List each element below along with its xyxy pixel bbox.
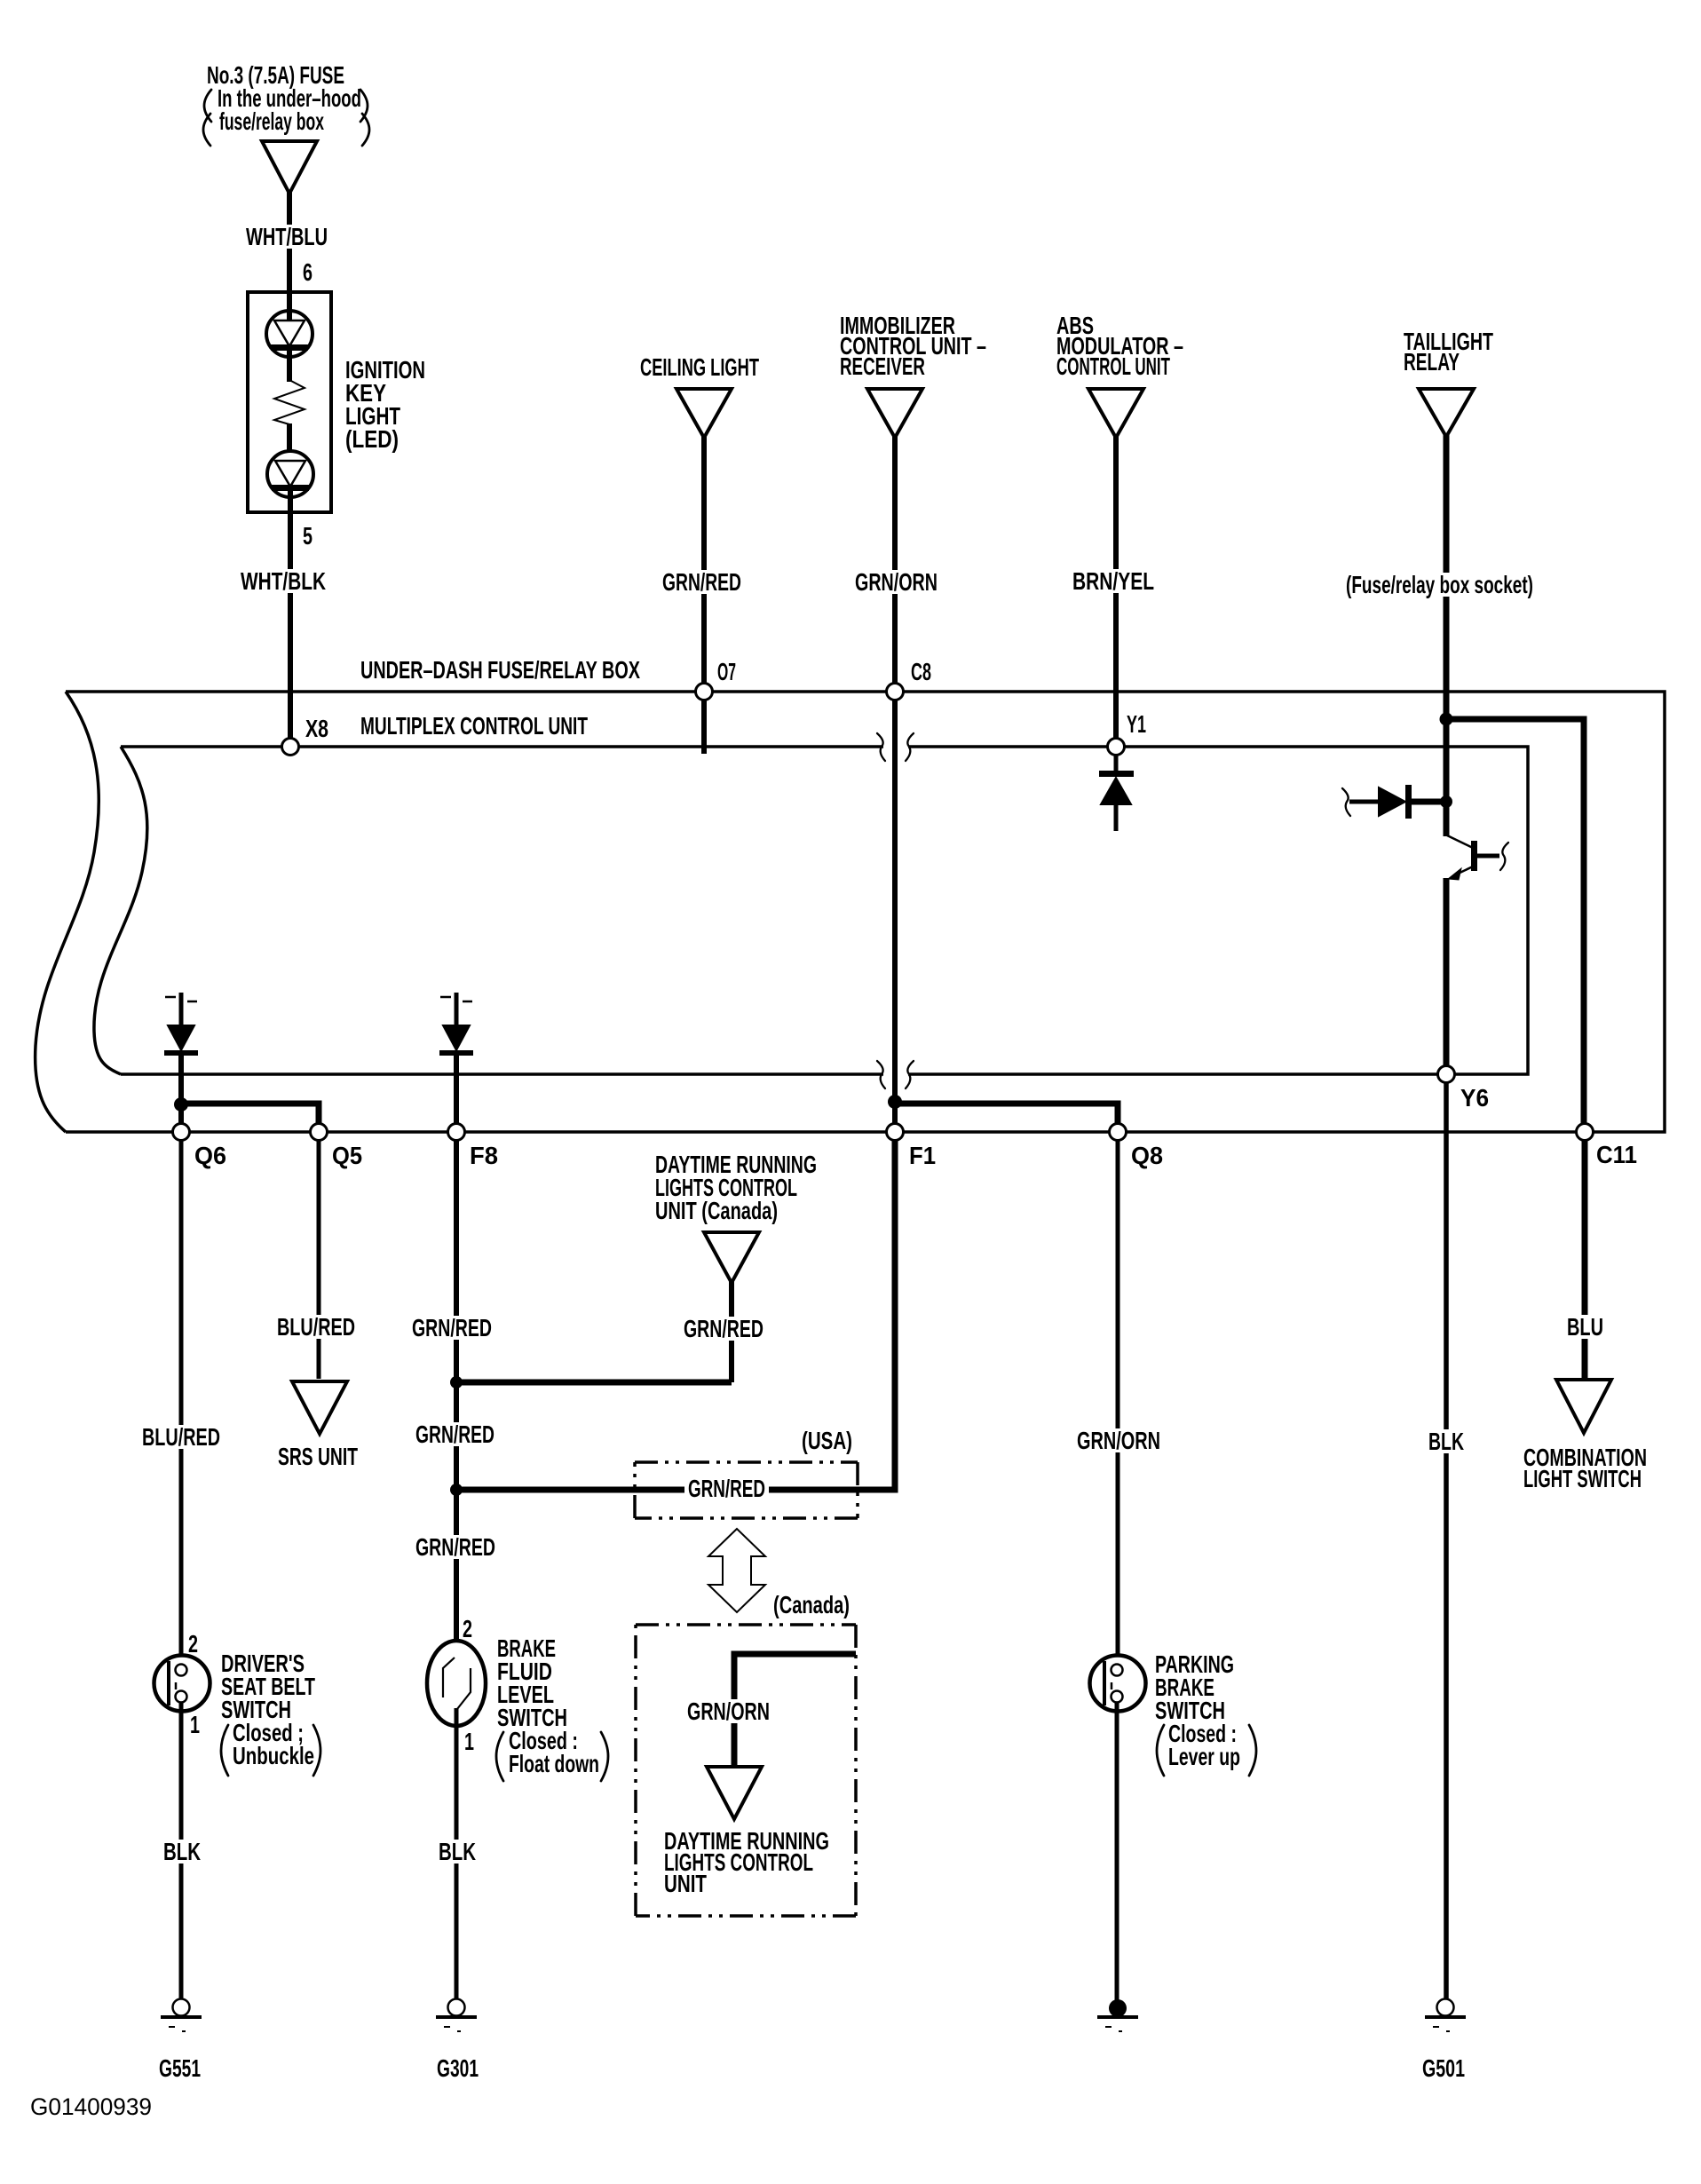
wire GRN/RED from F8 down [454, 1140, 459, 1658]
under-dash fuse/relay box outline [66, 692, 1665, 1132]
LED 1 of ignition key light [266, 311, 313, 357]
wire color label GRN/RED (DRL) [680, 1317, 767, 1341]
svg-text:GRN/RED: GRN/RED [662, 568, 741, 596]
svg-text:Q8: Q8 [1131, 1142, 1163, 1169]
connector triangle: No.3 fuse feed [262, 141, 317, 194]
svg-text:X8: X8 [305, 715, 328, 742]
under-dash fuse/relay box torn left edge [36, 692, 99, 1132]
svg-text:BLU/RED: BLU/RED [142, 1423, 220, 1451]
connector triangle: ABS modulator-control unit [1088, 389, 1143, 438]
wire from taillight relay into fuse/relay box [1444, 435, 1450, 836]
brake fluid level switch [427, 1641, 486, 1726]
connector Y6 on multiplex control unit [1438, 1066, 1455, 1083]
diode feeding taillight relay transistor [1342, 788, 1350, 816]
wire from Y6 down through box to G501 [1444, 1082, 1449, 1999]
svg-text:MULTIPLEX CONTROL UNIT: MULTIPLEX CONTROL UNIT [360, 712, 588, 740]
wire color label GRN/ORN (immobilizer) [851, 570, 941, 594]
svg-text:(LED): (LED) [345, 425, 399, 453]
svg-text:SRS UNIT: SRS UNIT [278, 1443, 358, 1470]
wire GRN/ORN from Q8 to parking brake switch [1116, 1140, 1120, 1665]
connector C8 on under-dash fuse/relay box [887, 684, 904, 700]
svg-text:G551: G551 [159, 2054, 201, 2082]
wire color label BLU/RED (Q6) [138, 1425, 224, 1449]
connector triangle: ceiling light [676, 389, 732, 438]
ground G501 [1437, 1999, 1454, 2016]
wire color label GRN/ORN (Q8) [1073, 1428, 1164, 1452]
wire WHT/BLU from fuse to ignition key light pin 6 [287, 192, 292, 293]
svg-text:GRN/RED: GRN/RED [684, 1315, 763, 1342]
wire BLK from seat belt switch to ground [179, 1702, 184, 1999]
ground (parking brake, case ground) [1109, 1999, 1127, 2017]
wire color label GRN/RED (USA box) [684, 1476, 769, 1500]
wire color label BLK (brake fluid) [435, 1840, 479, 1864]
connector triangle: SRS unit [292, 1381, 347, 1434]
wire color label GRN/RED (F8 middle) [412, 1422, 498, 1446]
diode inside multiplex unit above F8 [440, 996, 451, 999]
svg-text:F8: F8 [470, 1142, 498, 1169]
wire WHT/BLK from ignition key light to X8 [288, 491, 293, 740]
transistor inside multiplex unit (taillight driver) [1447, 835, 1473, 848]
svg-text:C8: C8 [911, 658, 931, 685]
connector Q6 [173, 1124, 190, 1141]
svg-text:Q6: Q6 [194, 1142, 226, 1169]
svg-text:(Fuse/relay box socket): (Fuse/relay box socket) [1346, 571, 1533, 598]
wire color label WHT/BLK [237, 569, 329, 593]
thick wire from F1 junction over to Q8 [895, 1104, 1118, 1124]
USA variant dashed box [635, 1460, 858, 1464]
thick wire GRN/RED from F8 junction through USA box to F1 [456, 1140, 895, 1490]
connector triangle: taillight relay [1419, 389, 1474, 437]
ground G551 [173, 1999, 190, 2016]
LED 2 of ignition key light [267, 451, 313, 497]
svg-text:RELAY: RELAY [1404, 348, 1460, 376]
svg-text:BRN/YEL: BRN/YEL [1072, 567, 1154, 595]
wire GRN/RED from ceiling light to O7 [701, 436, 707, 684]
connector triangle: daytime running lights control unit (Canada box) [707, 1767, 762, 1819]
wire color label BLU [1563, 1315, 1607, 1339]
svg-text:1: 1 [190, 1711, 200, 1738]
svg-text:Lever up: Lever up [1168, 1743, 1240, 1770]
junction dot on F8 wire at DRL branch [450, 1376, 463, 1389]
wire color label BLK (taillight relay ground) [1425, 1429, 1468, 1453]
thick wire from F8 junction to DRL wire [456, 1380, 732, 1386]
svg-text:LIGHT SWITCH: LIGHT SWITCH [1523, 1465, 1642, 1492]
ground G301 [448, 1999, 465, 2016]
svg-text:6: 6 [303, 258, 313, 286]
svg-text:5: 5 [303, 522, 313, 550]
ignition key light (LED) component box [248, 292, 331, 512]
wire BRN/YEL from ABS modulator to Y1 [1113, 436, 1119, 739]
svg-text:(USA): (USA) [802, 1427, 852, 1454]
svg-text:G501: G501 [1422, 2054, 1465, 2082]
connector X8 on multiplex control unit [282, 739, 299, 756]
wire from C11 to combination light switch [1582, 1140, 1588, 1379]
thick wire from junction to C11 column [1446, 719, 1584, 1124]
connector Q5 [311, 1124, 328, 1141]
svg-text:GRN/ORN: GRN/ORN [687, 1697, 770, 1725]
connector F8 [448, 1124, 465, 1141]
svg-text:BLK: BLK [1428, 1428, 1464, 1455]
svg-text:G01400939: G01400939 [30, 2093, 152, 2120]
wire from C8 through multiplex unit to F1 [892, 700, 898, 1126]
wire color label GRN/RED (F8 upper) [408, 1316, 495, 1340]
svg-text:1: 1 [464, 1728, 474, 1755]
svg-text:Q5: Q5 [332, 1142, 362, 1169]
USA/Canada double arrow [708, 1529, 765, 1612]
svg-text:2: 2 [188, 1630, 198, 1658]
wire from parking brake switch to ground [1115, 1702, 1119, 2001]
svg-text:UNIT (Canada): UNIT (Canada) [655, 1197, 778, 1224]
wire color label GRN/RED (ceiling light) [659, 570, 745, 594]
connector O7 on under-dash fuse/relay box [696, 684, 713, 700]
svg-text:(Canada): (Canada) [773, 1591, 850, 1618]
multiplex control unit outline [121, 747, 1528, 1074]
svg-text:GRN/RED: GRN/RED [415, 1533, 495, 1561]
connector triangle: immobilizer control unit-receiver [867, 389, 922, 438]
connector C11 [1577, 1124, 1594, 1141]
wire-break marks at multiplex top edge [877, 733, 885, 761]
svg-text:GRN/RED: GRN/RED [688, 1475, 765, 1502]
svg-text:BLU: BLU [1567, 1313, 1603, 1341]
parking brake switch [1090, 1656, 1146, 1712]
svg-text:BLK: BLK [163, 1838, 201, 1865]
wire GRN/ORN inside Canada box [734, 1654, 856, 1765]
multiplex control unit torn left edge [94, 747, 147, 1074]
svg-text:Unbuckle: Unbuckle [233, 1742, 314, 1769]
svg-text:GRN/ORN: GRN/ORN [1077, 1427, 1160, 1454]
svg-text:CEILING LIGHT: CEILING LIGHT [640, 353, 759, 381]
wire color label BLK (seat belt) [160, 1840, 204, 1864]
wire color label GRN/ORN (Canada box) [684, 1699, 773, 1723]
junction dot at taillight relay diode [1440, 795, 1452, 808]
driver's seat belt switch [154, 1656, 210, 1712]
svg-text:2: 2 [463, 1615, 472, 1642]
wire-break marks at multiplex bottom edge [877, 1061, 885, 1088]
connector triangle: combination light switch [1556, 1380, 1611, 1433]
wire color label GRN/RED (F8 lower) [412, 1535, 499, 1559]
connector triangle: daytime running lights control unit (Canada) [704, 1232, 759, 1283]
svg-text:GRN/RED: GRN/RED [415, 1420, 494, 1448]
wire color label BLU/RED (Q5) [273, 1315, 359, 1339]
wire BLU/RED from Q6 to driver's seat belt switch [179, 1140, 184, 1665]
Canada variant dashed box [636, 1623, 856, 1626]
junction dot above F1 [888, 1095, 902, 1109]
svg-text:BLK: BLK [439, 1838, 476, 1865]
diode inside multiplex unit above Q6 [165, 996, 176, 999]
wire BLK from brake fluid switch to ground [455, 1708, 459, 1999]
wire stub from O7 into multiplex unit [701, 700, 707, 754]
svg-text:Float down: Float down [509, 1750, 599, 1777]
svg-text:GRN/ORN: GRN/ORN [855, 568, 938, 596]
svg-text:O7: O7 [717, 658, 736, 685]
thick wire from Q6 junction over to Q5 [181, 1104, 319, 1124]
connector F1 [887, 1124, 904, 1141]
label (Fuse/relay box socket) [1342, 573, 1537, 597]
wire BLU/RED from Q5 to SRS unit [317, 1140, 321, 1379]
connector Y1 on multiplex control unit [1108, 739, 1125, 756]
svg-text:CONTROL UNIT: CONTROL UNIT [1056, 352, 1170, 380]
junction dot on F8 wire at USA branch [450, 1484, 463, 1496]
wire from transistor emitter to Y6 [1444, 878, 1450, 1066]
svg-text:GRN/RED: GRN/RED [412, 1314, 492, 1341]
svg-text:Y1: Y1 [1127, 710, 1146, 738]
svg-text:UNDER–DASH FUSE/RELAY BOX: UNDER–DASH FUSE/RELAY BOX [360, 656, 640, 684]
junction dot above Q6 [174, 1097, 188, 1112]
svg-text:fuse/relay box: fuse/relay box [219, 107, 324, 135]
svg-text:Y6: Y6 [1460, 1084, 1489, 1112]
svg-text:BLU/RED: BLU/RED [277, 1313, 355, 1341]
wire color label BRN/YEL [1069, 569, 1158, 593]
connector Q8 [1110, 1124, 1127, 1141]
svg-text:G301: G301 [437, 2054, 479, 2082]
svg-text:F1: F1 [909, 1142, 936, 1169]
resistor inside ignition key light [287, 351, 292, 382]
svg-text:C11: C11 [1596, 1141, 1637, 1168]
svg-text:UNIT: UNIT [664, 1870, 707, 1897]
svg-text:WHT/BLU: WHT/BLU [246, 223, 328, 250]
wire GRN/RED from DRL unit to F8 wire [729, 1281, 734, 1382]
diode below Y1 (cathode bar up) [1114, 754, 1119, 771]
junction dot: taillight relay wire to C11 branch [1440, 713, 1453, 726]
wire GRN/ORN from immobilizer to C8 [892, 436, 898, 684]
svg-text:WHT/BLK: WHT/BLK [241, 567, 326, 595]
svg-text:RECEIVER: RECEIVER [840, 352, 925, 380]
wire color label WHT/BLU [242, 225, 331, 249]
